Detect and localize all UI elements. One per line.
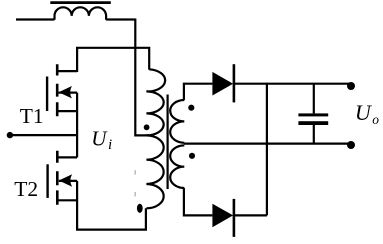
svg-text:o: o bbox=[372, 112, 379, 127]
transistor T1 channel bbox=[56, 64, 59, 116]
secondary lower winding bbox=[170, 145, 184, 188]
capacitor C plate bottom bbox=[298, 121, 328, 125]
secondary winding dot lower bbox=[189, 153, 195, 159]
svg-text:T2: T2 bbox=[14, 177, 38, 201]
secondary winding dot upper bbox=[188, 105, 194, 111]
secondary upper winding bbox=[170, 100, 184, 143]
transistor T2 channel bbox=[56, 151, 59, 205]
transistor T1 drain stub bbox=[57, 70, 78, 72]
inductor L core bar bbox=[50, 1, 111, 4]
transistor T1 body arrow bbox=[59, 86, 72, 98]
wire D1 to output bbox=[234, 83, 351, 85]
capacitor C lead top bbox=[313, 84, 315, 114]
transistor T2 source stub bbox=[57, 199, 77, 201]
node output positive bbox=[347, 82, 355, 90]
capacitor C lead bottom bbox=[313, 125, 315, 144]
svg-text:i: i bbox=[108, 137, 112, 153]
node input left terminal bbox=[7, 132, 13, 138]
wire T1 source / T2 drain bbox=[76, 93, 78, 158]
transistor T2 drain stub bbox=[57, 156, 77, 158]
wire D2 riser bbox=[266, 83, 268, 216]
wire T2 source to primary bottom bbox=[77, 181, 146, 230]
wire input left bbox=[10, 134, 77, 136]
transformer core bbox=[167, 95, 169, 190]
primary lower winding bbox=[146, 135, 163, 208]
primary winding dot lower bbox=[137, 204, 143, 213]
primary upper winding bbox=[146, 69, 165, 135]
wire D2 cathode bbox=[234, 214, 267, 216]
diode D1 bbox=[212, 72, 233, 96]
wire inductor to riser bbox=[106, 18, 135, 20]
wire secondary top lead bbox=[184, 84, 213, 100]
diode D1 cathode bar bbox=[233, 64, 236, 102]
ghost dashed line bbox=[134, 170, 136, 196]
diode D2 cathode bar bbox=[233, 199, 236, 237]
wire output return rail bbox=[184, 143, 351, 145]
transistor T2 body stub bbox=[59, 180, 77, 182]
inductor L bbox=[55, 7, 107, 19]
node output negative bbox=[347, 141, 355, 149]
primary winding dot upper bbox=[144, 124, 150, 130]
transistor T1 gate bar bbox=[46, 77, 48, 112]
svg-text:T1: T1 bbox=[20, 104, 44, 128]
svg-text:U: U bbox=[91, 126, 108, 150]
diode D2 bbox=[212, 204, 233, 228]
transistor T1 body stub bbox=[59, 91, 78, 93]
transistor T1 source stub bbox=[57, 110, 78, 112]
wire riser to center tap bbox=[135, 19, 148, 136]
transistor T2 gate bar bbox=[46, 164, 48, 198]
transistor T2 body arrow bbox=[59, 174, 72, 186]
capacitor C plate top bbox=[298, 113, 328, 116]
svg-text:U: U bbox=[355, 100, 373, 125]
wire secondary bottom lead bbox=[184, 188, 213, 215]
wire T1 drain to primary top bbox=[77, 48, 149, 72]
wire input top bbox=[16, 18, 55, 20]
